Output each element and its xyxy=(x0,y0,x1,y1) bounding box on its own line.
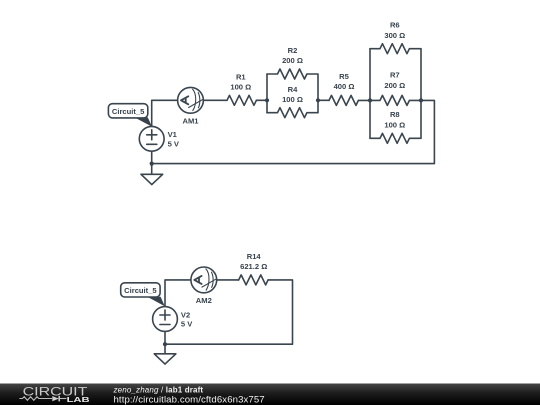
svg-text:200 Ω: 200 Ω xyxy=(384,81,405,90)
svg-text:100 Ω: 100 Ω xyxy=(230,83,251,92)
wire return path from node D down and back to V1 bottom xyxy=(152,100,435,163)
wire R5 to node C xyxy=(358,99,370,101)
wire R14 right side return loop xyxy=(165,280,293,344)
svg-text:200 Ω: 200 Ω xyxy=(282,56,303,65)
node junction B (R2-R4 box / R5) xyxy=(316,98,320,102)
wire R1 to node A xyxy=(256,99,267,101)
resistor R2 xyxy=(267,46,318,79)
svg-text:V1: V1 xyxy=(168,130,178,139)
node junction C (R5 / R6-R8 box) xyxy=(368,98,372,102)
ground (top circuit) xyxy=(141,174,163,184)
node junction D (R6-R8 box / return wire) xyxy=(419,98,423,102)
resistor R7 xyxy=(370,71,421,106)
svg-text:100 Ω: 100 Ω xyxy=(384,121,405,130)
svg-text:V2: V2 xyxy=(181,310,190,319)
wire V1 bottom stem to ground xyxy=(151,151,153,174)
svg-text:R4: R4 xyxy=(288,85,298,94)
node label Circuit_5 (top) xyxy=(108,104,151,127)
resistor R6 xyxy=(370,21,421,54)
voltage source V1 xyxy=(139,126,180,151)
svg-text:AM1: AM1 xyxy=(182,116,199,125)
svg-text:400 Ω: 400 Ω xyxy=(334,82,355,91)
wire right vertical of R6/R7/R8 parallel box xyxy=(420,49,422,139)
svg-text:621.2 Ω: 621.2 Ω xyxy=(240,262,267,271)
svg-text:5 V: 5 V xyxy=(168,139,180,148)
svg-text:Circuit_5: Circuit_5 xyxy=(112,107,145,116)
svg-text:zeno_zhang / lab1 draft: zeno_zhang / lab1 draft xyxy=(113,386,204,395)
wire AM2 to R14 xyxy=(217,279,239,281)
voltage source V2 xyxy=(153,307,194,332)
svg-text:R6: R6 xyxy=(390,21,400,30)
svg-text:5 V: 5 V xyxy=(181,320,193,329)
wire right vertical of R2/R4 parallel box xyxy=(317,74,319,113)
resistor R14 xyxy=(239,252,268,285)
wire node B to R5 xyxy=(318,99,329,101)
wire V2 bottom stem to ground xyxy=(164,331,166,353)
node junction F (V2 bottom / return wire) xyxy=(163,342,167,346)
resistor R1 xyxy=(227,73,256,106)
svg-text:http://circuitlab.com/cftd6x6n: http://circuitlab.com/cftd6x6n3x757 xyxy=(114,394,265,405)
resistor R5 xyxy=(329,72,358,105)
svg-text:300 Ω: 300 Ω xyxy=(384,31,405,40)
svg-text:R5: R5 xyxy=(339,72,349,81)
svg-text:Circuit_5: Circuit_5 xyxy=(124,286,157,295)
wire AM1 to R1 xyxy=(203,99,227,101)
svg-text:100 Ω: 100 Ω xyxy=(282,95,303,104)
CircuitLab logo xyxy=(19,385,89,404)
ground (bottom circuit) xyxy=(154,354,176,364)
svg-text:R2: R2 xyxy=(288,46,298,55)
resistor R8 xyxy=(370,110,421,143)
ammeter AM2 xyxy=(191,267,217,305)
ammeter AM1 xyxy=(178,87,204,125)
footer bar xyxy=(0,384,540,405)
wire V2 top stem to ammeter AM2 xyxy=(165,280,191,307)
svg-text:AM2: AM2 xyxy=(196,296,212,305)
wire V1 top stem to ammeter AM1 xyxy=(152,100,178,126)
wire left vertical of R2/R4 parallel box xyxy=(266,74,268,113)
node junction A (R1 / R2-R4 box) xyxy=(265,98,269,102)
svg-text:R7: R7 xyxy=(390,71,400,80)
footer caption text xyxy=(113,386,265,405)
node label Circuit_5 (bottom) xyxy=(121,283,165,306)
resistor R4 xyxy=(267,85,318,118)
svg-text:LAB: LAB xyxy=(67,395,90,404)
svg-text:R8: R8 xyxy=(390,110,400,119)
wire left vertical of R6/R7/R8 parallel box xyxy=(369,49,371,139)
svg-text:R1: R1 xyxy=(236,73,246,82)
node junction E (V1 bottom / return wire) xyxy=(150,162,154,166)
svg-text:R14: R14 xyxy=(247,252,262,261)
